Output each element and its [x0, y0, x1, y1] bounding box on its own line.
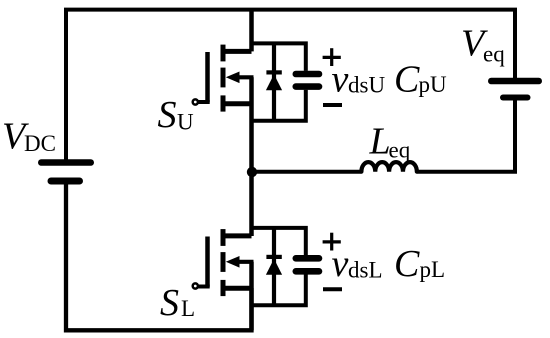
channel segment bottom — [221, 95, 226, 111]
svg-text:v: v — [332, 59, 349, 101]
wire upper branch top — [252, 43, 306, 71]
minus sign lower — [323, 287, 342, 291]
wire upper drain vertical — [249, 10, 254, 52]
channel segment top — [221, 229, 226, 246]
plus sign upper — [323, 48, 341, 66]
wire upper branch bottom — [252, 90, 306, 121]
channel segment middle — [221, 252, 226, 272]
gate bar — [205, 237, 210, 287]
wire top rail with left and right drops — [66, 10, 515, 160]
capacitor C_pL plates — [296, 258, 319, 271]
svg-text:C: C — [394, 59, 420, 101]
wire lower branch bottom — [252, 274, 306, 305]
svg-text:S: S — [158, 94, 177, 136]
wire left below battery and bottom rail — [66, 181, 252, 330]
gate bar — [205, 52, 210, 102]
diode D_U body diode — [266, 43, 282, 120]
svg-text:L: L — [369, 121, 391, 163]
svg-text:S: S — [160, 282, 179, 324]
wire upper source vertical — [249, 77, 254, 171]
channel segment middle — [221, 68, 226, 88]
gate terminal circle — [193, 283, 198, 288]
gate terminal circle — [193, 99, 198, 104]
source stub — [223, 286, 252, 291]
svg-text:L: L — [181, 296, 195, 321]
capacitor C_pU plates — [296, 74, 319, 87]
gate lead — [198, 285, 210, 289]
svg-text:pL: pL — [420, 257, 446, 282]
wire right below battery to middle rail — [417, 98, 515, 172]
minus sign upper — [323, 103, 342, 107]
battery VDC long plate — [41, 159, 90, 166]
gate lead — [198, 100, 210, 104]
svg-text:v: v — [332, 243, 349, 285]
svg-text:U: U — [177, 110, 194, 135]
wire mid vertical node to lower drain — [249, 172, 254, 236]
drain stub — [223, 49, 252, 54]
wire lower source vertical — [249, 262, 254, 331]
node A junction dot — [247, 167, 257, 177]
wire lower branch top — [252, 228, 306, 256]
svg-text:eq: eq — [389, 138, 411, 163]
battery Veq long plate — [491, 78, 538, 85]
inductor Leq — [361, 171, 417, 173]
wire middle rail node to inductor — [252, 170, 362, 174]
body stub with arrow — [237, 260, 254, 264]
svg-text:C: C — [394, 243, 420, 285]
battery Veq short plate — [503, 95, 528, 101]
channel segment top — [221, 45, 226, 62]
drain stub — [223, 233, 252, 238]
diode D_L body diode — [266, 228, 282, 305]
channel segment bottom — [221, 280, 226, 296]
source stub — [223, 101, 252, 106]
plus sign lower — [323, 233, 341, 251]
svg-text:dsU: dsU — [348, 73, 385, 98]
body stub with arrow — [237, 75, 254, 79]
battery VDC short plate — [51, 178, 80, 185]
transistor S_L (MOSFET) — [193, 229, 254, 296]
svg-text:pU: pU — [419, 72, 448, 97]
svg-text:dsL: dsL — [348, 258, 383, 283]
svg-text:eq: eq — [483, 41, 505, 66]
svg-text:DC: DC — [24, 131, 56, 156]
transistor S_U (MOSFET) — [193, 45, 254, 112]
